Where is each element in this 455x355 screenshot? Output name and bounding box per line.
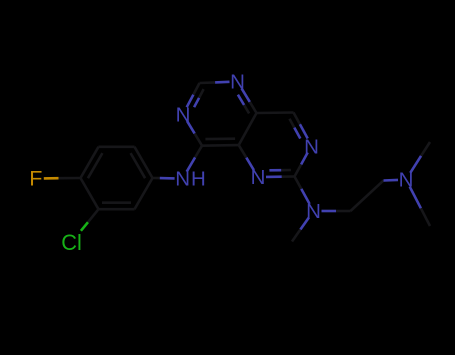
wire bond C4a-C8a	[239, 113, 257, 145]
wire bond C4a-B2	[257, 111, 294, 114]
svg-text:N: N	[399, 169, 414, 192]
svg-text:N: N	[306, 200, 321, 223]
wire bond v5-v6 (double)	[99, 203, 135, 210]
wire bond Nf-Me2	[410, 142, 430, 173]
wire bond C2c-Nc (double)	[266, 170, 295, 177]
wire bond C4-Nb	[187, 121, 202, 146]
wire bond Ne-C1	[322, 210, 351, 213]
svg-text:F: F	[29, 167, 42, 191]
wire bond v1-v2 (double)	[81, 147, 103, 178]
svg-text:N: N	[304, 136, 319, 159]
wire bond B2-Nd (double)	[290, 113, 308, 139]
wire bond C1-C2h	[351, 181, 384, 212]
wire bond C2c-Ne	[295, 177, 310, 205]
wire bond Cl-v6	[81, 209, 99, 231]
svg-text:N: N	[175, 168, 190, 191]
wire bond C8a-C4 (double)	[202, 139, 239, 146]
wire bond Nc-C8a	[239, 145, 254, 170]
wire bond C2h-Nf	[384, 179, 399, 182]
wire bond v3-v4 (double)	[131, 147, 153, 178]
svg-text:H: H	[191, 168, 206, 191]
wire bond v2-v3	[99, 146, 135, 149]
wire bond Nf-Me3	[410, 187, 430, 226]
wire bond v6-v1	[81, 178, 99, 209]
svg-text:Cl: Cl	[61, 230, 82, 255]
wire bond Nd-C2c	[295, 153, 308, 177]
wire bond Nh-C4	[187, 146, 202, 172]
svg-text:N: N	[230, 71, 245, 94]
wire bond v4-v5	[135, 178, 153, 209]
wire bond apex-Na	[200, 82, 230, 83]
wire bond Ne-Me1	[292, 218, 309, 242]
svg-text:N: N	[251, 166, 266, 189]
svg-text:N: N	[176, 103, 191, 126]
wire bond Na-C4a (double)	[238, 88, 257, 113]
wire bond F-v1	[44, 177, 81, 180]
wire bond v4-Nh	[153, 177, 175, 180]
wire bond Nb-apex (double)	[187, 83, 204, 107]
